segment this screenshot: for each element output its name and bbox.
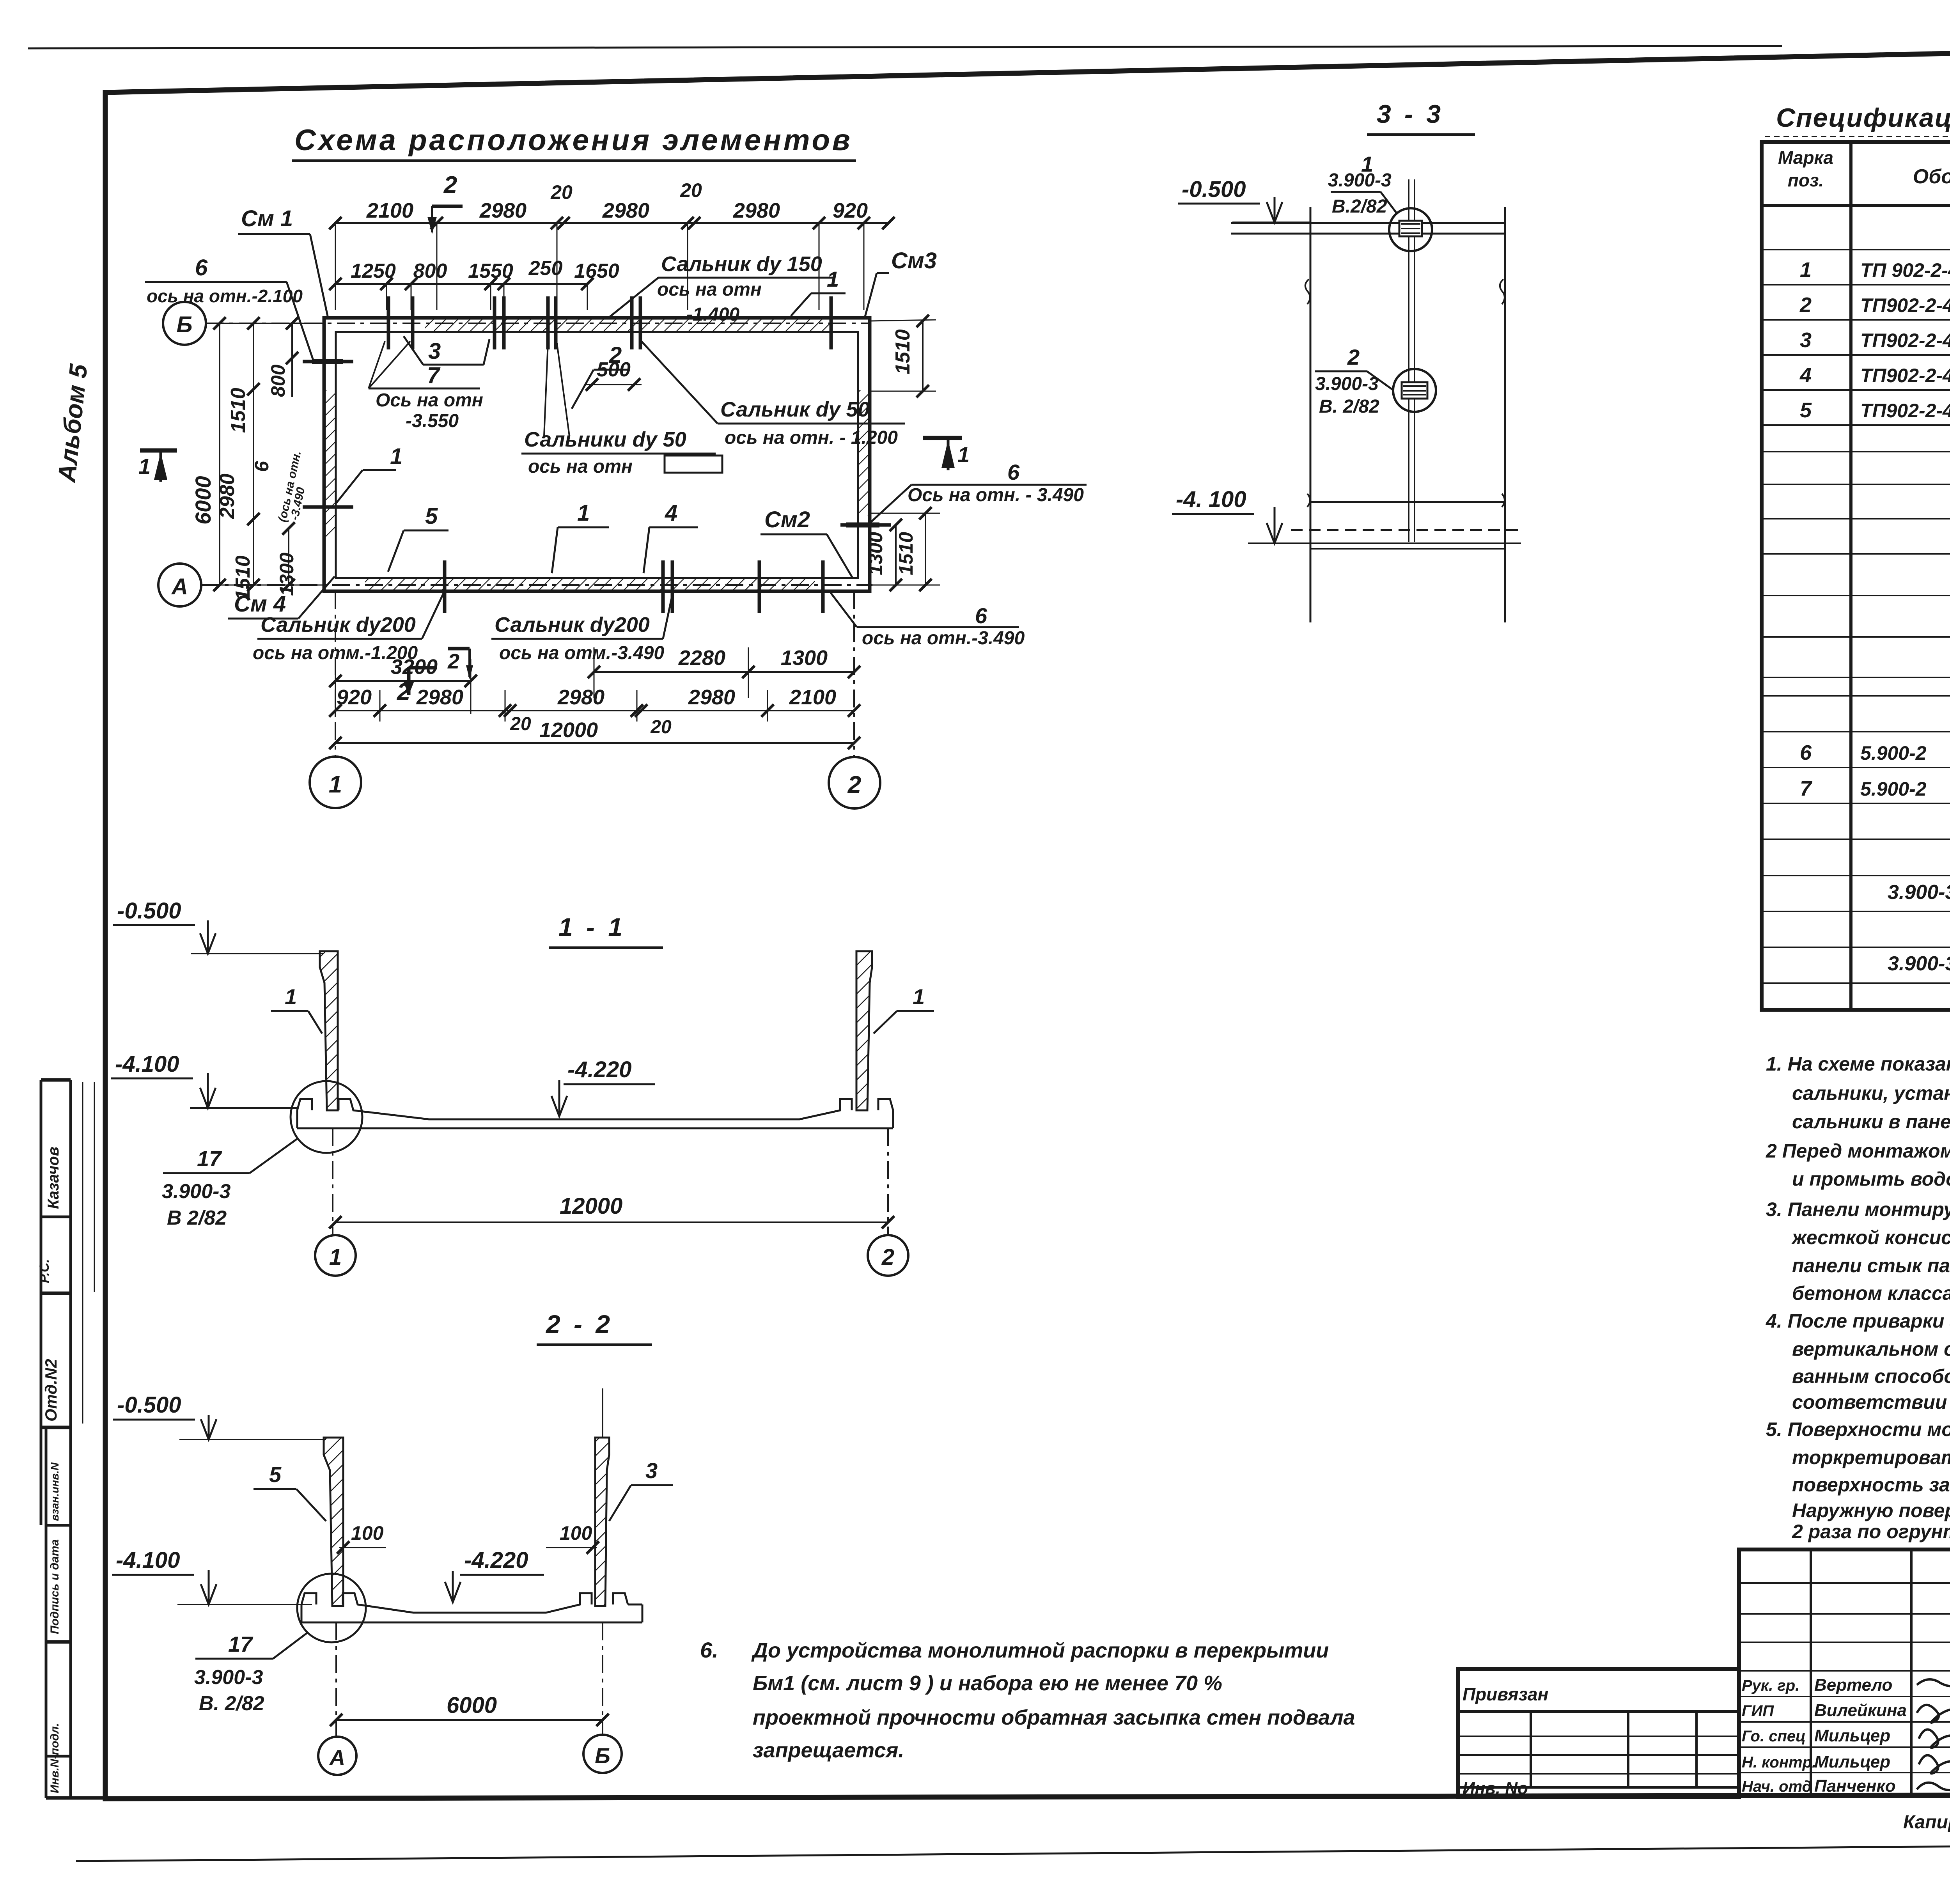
svg-text:3200: 3200 (391, 655, 438, 679)
plan wall panel hatching top (425, 318, 831, 332)
paper edge top (28, 46, 1782, 48)
svg-text:1: 1 (329, 1245, 342, 1270)
svg-text:ТП902-2-469.89-КЖ.И.- 3.0: ТП902-2-469.89-КЖ.И.- 3.0 (1860, 330, 1950, 351)
svg-text:3.900-3: 3.900-3 (1315, 374, 1379, 394)
svg-text:ось на отн: ось на отн (528, 456, 633, 477)
section mark 2 bottom (448, 647, 470, 651)
right dims 1510 top (870, 320, 936, 321)
svg-text:Сальники dy 50: Сальники dy 50 (524, 428, 686, 451)
plan outer wall outline (324, 318, 870, 591)
svg-text:5.900-2: 5.900-2 (1860, 778, 1927, 800)
svg-text:ГИП: ГИП (1742, 1702, 1774, 1720)
svg-text:4: 4 (665, 500, 677, 526)
svg-text:2980: 2980 (216, 473, 239, 519)
svg-text:Обозначение: Обозначение (1913, 165, 1950, 188)
svg-text:поверхность затереть по 2му: поверхность затереть по 2му слою торкрет… (1792, 1474, 1950, 1496)
section 3-3 weld detail circle bottom (1393, 369, 1436, 412)
svg-text:Сальник dy 150: Сальник dy 150 (661, 252, 822, 276)
svg-text:Б: Б (595, 1743, 610, 1768)
svg-text:1300: 1300 (781, 646, 828, 670)
svg-text:2: 2 (443, 172, 457, 199)
svg-text:Бм1 (см. лист 9 ) и набора: Бм1 (см. лист 9 ) и набора ею не менее 7… (753, 1672, 1222, 1695)
bottom dim row 920 2980 2980 2980 2100 (335, 710, 854, 711)
section 3-3 panel edges (1310, 207, 1312, 622)
svg-text:ось на отн.-3.490: ось на отн.-3.490 (862, 628, 1025, 649)
section 2-2 floor slab (301, 1593, 628, 1613)
svg-text:-1.400: -1.400 (686, 304, 739, 325)
svg-text:5. Поверхности монолитных: 5. Поверхности монолитных участков и сты… (1766, 1418, 1950, 1440)
section 1-1 dim 12000 (335, 1221, 888, 1223)
svg-text:и промыть водой .: и промыть водой . (1792, 1168, 1950, 1190)
svg-text:1510: 1510 (895, 532, 917, 575)
svg-text:1: 1 (1800, 258, 1812, 282)
section 2-2 left wall panel (324, 1438, 343, 1606)
svg-text:800: 800 (267, 364, 289, 397)
svg-text:2: 2 (847, 771, 861, 798)
section 1-1 left wall panel (320, 951, 338, 1110)
top dimension row 2: 1250 800 1550 250 1650 (335, 283, 587, 285)
svg-text:Наружную поверхность стен: Наружную поверхность стен подвала обмаза… (1792, 1500, 1950, 1521)
axis 1 (vertical) (335, 591, 336, 756)
svg-text:20: 20 (510, 714, 531, 734)
section 3-3 weld detail circle top (1389, 208, 1432, 251)
svg-text:В 2/82: В 2/82 (167, 1207, 227, 1229)
svg-text:-0.500: -0.500 (1182, 177, 1246, 202)
joint mark right wall (840, 523, 891, 527)
svg-text:3.900-3: 3.900-3 (194, 1666, 263, 1689)
axis A (horizontal) (158, 564, 201, 606)
svg-text:Панченко: Панченко (1814, 1776, 1896, 1796)
svg-text:6000: 6000 (191, 476, 215, 525)
svg-text:Сальник dy 50: Сальник dy 50 (720, 398, 870, 421)
svg-text:См3: См3 (891, 248, 937, 273)
svg-text:3.900-3: 3.900-3 (162, 1180, 230, 1203)
svg-text:12000: 12000 (560, 1193, 622, 1219)
plan wall panel hatching left (324, 390, 336, 539)
svg-text:2: 2 (881, 1245, 894, 1270)
svg-text:Нач. отд: Нач. отд (1742, 1778, 1812, 1795)
section 2-2 right wall panel (595, 1438, 609, 1606)
svg-text:2980: 2980 (688, 686, 735, 709)
left dims 1510 2980 1510 (253, 323, 254, 585)
svg-text:Ось на отн. - 3.490: Ось на отн. - 3.490 (908, 485, 1084, 505)
svg-text:1510: 1510 (227, 388, 250, 433)
svg-text:2 раза по огрунтовке прайм: 2 раза по огрунтовке праймером. (1792, 1521, 1950, 1542)
svg-text:1 - 1: 1 - 1 (558, 913, 626, 941)
svg-text:2 - 2: 2 - 2 (545, 1310, 613, 1338)
right dims 1300 1510 bottom (895, 525, 897, 585)
svg-text:20: 20 (550, 181, 573, 203)
svg-text:ТП 902-2-469.89-КЖ.И.-1.0: ТП 902-2-469.89-КЖ.И.-1.0 (1860, 259, 1950, 281)
svg-text:2980: 2980 (479, 199, 526, 222)
svg-text:-0.500: -0.500 (117, 1392, 181, 1418)
svg-text:Н. контр.: Н. контр. (1742, 1754, 1816, 1771)
plan inner wall outline (336, 332, 858, 578)
section 2-2 dim 6000 (336, 1719, 603, 1721)
svg-text:запрещается.: запрещается. (753, 1739, 904, 1762)
svg-text:Б: Б (176, 312, 192, 337)
svg-text:6: 6 (195, 255, 208, 280)
svg-text:4. После приварки арматурн: 4. После приварки арматурных накладок, с… (1766, 1310, 1950, 1332)
svg-text:-0.500: -0.500 (117, 898, 181, 924)
svg-text:ось на отн. - 1.200: ось на отн. - 1.200 (725, 427, 898, 448)
svg-text:Ось на отн: Ось на отн (376, 390, 483, 411)
svg-text:1250: 1250 (351, 260, 396, 282)
svg-text:Инв.N-подл.: Инв.N-подл. (48, 1723, 61, 1793)
svg-text:Мильцер: Мильцер (1814, 1726, 1890, 1745)
svg-text:1: 1 (827, 267, 839, 291)
svg-text:1: 1 (957, 442, 970, 467)
svg-text:Отд.N2: Отд.N2 (42, 1359, 60, 1422)
svg-text:3: 3 (1800, 328, 1812, 352)
section 1-1 axis stubs (332, 1128, 333, 1236)
svg-text:В. 2/82: В. 2/82 (1319, 396, 1379, 417)
svg-text:Сальник dy200: Сальник dy200 (261, 613, 416, 636)
svg-text:-4.220: -4.220 (464, 1548, 528, 1573)
section 3-3 bottom slab lines (1310, 501, 1505, 503)
section 2-2 detail circle (297, 1574, 366, 1642)
section 3-3 vertical joint (1408, 234, 1409, 542)
svg-text:6: 6 (1007, 460, 1020, 484)
svg-text:бетоном класса В25 .: бетоном класса В25 . (1792, 1282, 1950, 1304)
section 1-1 axis circles (315, 1235, 356, 1276)
svg-text:поз.: поз. (1788, 170, 1824, 190)
section 1-1 detail circle (291, 1081, 362, 1153)
bottom dim 12000 (335, 742, 854, 744)
svg-text:См 1: См 1 (241, 206, 293, 231)
svg-text:1510: 1510 (892, 329, 914, 374)
svg-text:4: 4 (1799, 363, 1812, 387)
svg-text:1550: 1550 (468, 260, 513, 282)
svg-text:2980: 2980 (733, 199, 780, 222)
plan wall panel hatching right (858, 390, 870, 516)
svg-text:Привязан: Привязан (1462, 1684, 1548, 1704)
svg-text:3. Панели монтируются по: 3. Панели монтируются по свежеуложенному… (1766, 1198, 1950, 1220)
svg-text:Вилейкина: Вилейкина (1814, 1701, 1907, 1720)
title block: privyazan table (1458, 1669, 1739, 1797)
svg-text:6000: 6000 (447, 1693, 497, 1718)
panel joint marks bottom wall (443, 560, 447, 613)
svg-text:5.900-2: 5.900-2 (1860, 742, 1927, 764)
svg-text:250: 250 (528, 257, 563, 280)
svg-text:6.: 6. (700, 1638, 718, 1662)
svg-text:920: 920 (337, 686, 372, 709)
svg-text:панели стык панели с днищем: панели стык панели с днищем замоноличива… (1792, 1255, 1950, 1276)
svg-text:1300: 1300 (865, 532, 886, 575)
svg-text:800: 800 (413, 260, 447, 282)
svg-text:2: 2 (447, 650, 459, 673)
svg-text:ТП902-2-469.89-КЖ.И- 2.0: ТП902-2-469.89-КЖ.И- 2.0 (1860, 294, 1950, 316)
section 2-2 axis circles (318, 1737, 356, 1775)
svg-text:Го. спец: Го. спец (1742, 1728, 1806, 1745)
plan wall panel hatching bottom (365, 578, 815, 591)
svg-text:2 Перед монтажом панелей т: 2 Перед монтажом панелей тщательно очист… (1766, 1140, 1950, 1162)
svg-text:вертикальном стыке ( см. 3-3: вертикальном стыке ( см. 3-3 ) , стыки з… (1792, 1338, 1950, 1360)
svg-text:Сальник dy200: Сальник dy200 (495, 613, 650, 636)
svg-text:ось на отн.-2.100: ось на отн.-2.100 (147, 286, 303, 306)
svg-text:См2: См2 (764, 507, 810, 532)
svg-text:1650: 1650 (574, 260, 619, 282)
axis 2 (vertical) (853, 591, 855, 756)
svg-text:6: 6 (251, 461, 273, 472)
joint mark left wall (303, 360, 353, 363)
section 2-2 axis stubs (335, 1622, 337, 1736)
section mark 1 right (923, 436, 962, 440)
svg-text:17: 17 (228, 1632, 253, 1656)
svg-text:ось на отн: ось на отн (657, 279, 762, 300)
svg-text:взан.инв.N: взан.инв.N (49, 1462, 61, 1521)
svg-text:Рук. гр.: Рук. гр. (1742, 1677, 1799, 1694)
svg-text:1: 1 (577, 500, 590, 526)
svg-text:До устройства монолитной ра: До устройства монолитной распорки в пере… (751, 1639, 1329, 1662)
svg-text:17: 17 (197, 1146, 222, 1171)
svg-text:Вертело: Вертело (1814, 1675, 1892, 1695)
svg-text:Спецификация к схеме расположе: Спецификация к схеме расположения стен п… (1776, 103, 1950, 133)
left dims 6000 (219, 323, 220, 585)
svg-text:1: 1 (390, 444, 402, 469)
svg-text:1510: 1510 (232, 555, 254, 601)
svg-text:7: 7 (427, 363, 441, 388)
svg-text:920: 920 (833, 199, 868, 222)
left dims 800 / 1300 (291, 323, 293, 397)
svg-text:соответствии с рекомендациями: соответствии с рекомендациями альбома се… (1792, 1391, 1950, 1413)
svg-text:1: 1 (285, 984, 297, 1009)
svg-text:7: 7 (1800, 777, 1813, 800)
section mark 1 left (140, 449, 177, 453)
svg-text:А: А (171, 574, 188, 599)
svg-text:3: 3 (645, 1458, 658, 1483)
svg-text:Подпись и дата: Подпись и дата (48, 1539, 61, 1634)
svg-text:2980: 2980 (557, 686, 604, 709)
svg-text:5: 5 (425, 503, 438, 529)
svg-text:Инв. No: Инв. No (1462, 1779, 1528, 1798)
svg-text:5: 5 (1800, 399, 1812, 422)
title block: signature table (1739, 1549, 1950, 1796)
svg-text:ось на отм.-3.490: ось на отм.-3.490 (499, 643, 664, 663)
panel joint marks top wall (387, 296, 390, 349)
signatures squiggles (1917, 1679, 1950, 1686)
svg-text:3: 3 (428, 339, 441, 364)
svg-text:2280: 2280 (678, 646, 725, 670)
section 1-1 right wall panel (856, 951, 872, 1110)
svg-text:-4.220: -4.220 (567, 1057, 631, 1082)
svg-text:100: 100 (351, 1522, 384, 1544)
bottom dim 2280 1300 (594, 671, 854, 673)
svg-text:сальники, устанавливаемые в: сальники, устанавливаемые в монолитных у… (1792, 1082, 1950, 1104)
svg-text:12000: 12000 (539, 718, 598, 742)
axis B (horizontal) (163, 302, 206, 345)
svg-text:ванным способом с подачей: ванным способом с подачей раствора под д… (1792, 1365, 1950, 1387)
spec table grid (1762, 142, 1950, 1010)
svg-text:жесткой консистенции. После: жесткой консистенции. После выверки и вр… (1791, 1227, 1950, 1248)
svg-text:Р.С.: Р.С. (37, 1259, 52, 1283)
svg-text:-3.550: -3.550 (406, 411, 459, 431)
svg-text:3.900-3 В.2/82: 3.900-3 В.2/82 (1888, 881, 1950, 904)
svg-text:5: 5 (269, 1462, 282, 1487)
svg-text:100: 100 (560, 1522, 592, 1544)
svg-text:3.900-3: 3.900-3 (1328, 170, 1392, 191)
svg-text:2: 2 (1799, 293, 1812, 317)
svg-text:2980: 2980 (416, 686, 463, 709)
svg-text:-4.100: -4.100 (116, 1548, 180, 1573)
svg-text:ТП902-2-469.89-КЖ.И. - 5.0: ТП902-2-469.89-КЖ.И. - 5.0 (1860, 400, 1950, 422)
svg-text:1300: 1300 (276, 553, 298, 596)
svg-text:3 - 3: 3 - 3 (1377, 99, 1444, 128)
svg-text:1. На схеме показана привяз: 1. На схеме показана привязка всех сальн… (1766, 1053, 1950, 1075)
section 1-1 floor slab (297, 1099, 893, 1119)
paper edge bottom (76, 1842, 1950, 1861)
svg-text:2980: 2980 (602, 199, 649, 222)
svg-text:1: 1 (329, 771, 342, 798)
svg-text:проектной прочности обратная: проектной прочности обратная засыпка сте… (753, 1706, 1355, 1729)
svg-text:1: 1 (138, 454, 151, 479)
svg-text:Мильцер: Мильцер (1814, 1752, 1890, 1771)
svg-text:2100: 2100 (789, 686, 836, 709)
svg-text:20: 20 (650, 717, 672, 737)
svg-text:А: А (329, 1745, 345, 1770)
svg-text:В.2/82: В.2/82 (1332, 196, 1387, 217)
svg-text:2: 2 (609, 342, 622, 368)
svg-text:-4.100: -4.100 (115, 1051, 179, 1077)
section 3-3 break marks (1305, 279, 1310, 304)
top dimension row 1: 2100 2980 20 2980 20 2980 920 (335, 222, 888, 224)
svg-text:1: 1 (913, 984, 925, 1009)
svg-text:-4. 100: -4. 100 (1176, 487, 1246, 512)
svg-text:сальники в панелях см. альб: сальники в панелях см. альбом КЖ.4. (1792, 1111, 1950, 1133)
left margin stamp strip (69, 1080, 72, 1798)
svg-text:В. 2/82: В. 2/82 (199, 1692, 264, 1715)
svg-text:2: 2 (1347, 345, 1360, 369)
svg-text:торкретировать за 2 раза об: торкретировать за 2 раза общим слоем 25 … (1792, 1447, 1950, 1468)
svg-text:Схема расположения элементов: Схема расположения элементов (294, 124, 853, 157)
svg-text:Капировал Фи: Капировал Фи (1903, 1812, 1950, 1833)
svg-text:Казачов: Казачов (45, 1147, 62, 1209)
bottom dim 3200 (335, 680, 471, 682)
svg-text:ТП902-2-469.89-КЖ.И. - 4.0: ТП902-2-469.89-КЖ.И. - 4.0 (1860, 365, 1950, 386)
svg-text:Марка: Марка (1778, 147, 1833, 168)
svg-text:6: 6 (1800, 741, 1812, 764)
svg-text:3.900-3 В.2/82: 3.900-3 В.2/82 (1888, 952, 1950, 975)
svg-text:20: 20 (680, 179, 702, 201)
svg-text:6: 6 (975, 603, 987, 628)
svg-text:2100: 2100 (366, 199, 413, 222)
